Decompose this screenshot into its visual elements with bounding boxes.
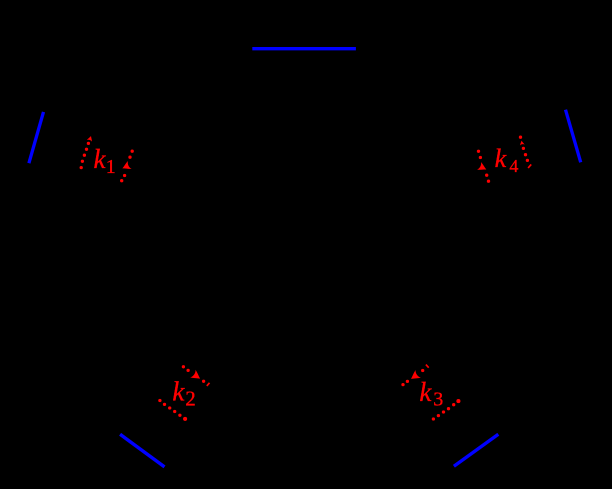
svg-text:3: 3 xyxy=(433,389,443,411)
svg-text:1: 1 xyxy=(106,156,116,178)
svg-text:4: 4 xyxy=(509,156,518,176)
svg-text:k: k xyxy=(495,144,507,173)
k3 lower-right dotted line xyxy=(432,399,461,421)
k4 right dotted arrow xyxy=(519,136,531,168)
k2 upper-right dotted arrow xyxy=(182,365,210,386)
blue edge lower-left xyxy=(120,434,164,467)
k1 right dotted arrow xyxy=(120,150,134,183)
svg-text:2: 2 xyxy=(185,387,196,411)
blue edge top xyxy=(252,47,356,50)
svg-text:k: k xyxy=(172,377,185,407)
blue edge lower-right xyxy=(454,434,498,466)
blue edge upper-left xyxy=(29,112,44,163)
blue edge upper-right xyxy=(566,110,581,163)
k2 lower-left dotted line xyxy=(158,399,187,421)
svg-text:k: k xyxy=(94,144,107,174)
k3 upper-left dotted arrow xyxy=(401,365,428,387)
svg-text:k: k xyxy=(419,377,432,407)
k1 left dotted arrow xyxy=(80,135,94,169)
k4 left dotted arrow xyxy=(477,150,490,183)
